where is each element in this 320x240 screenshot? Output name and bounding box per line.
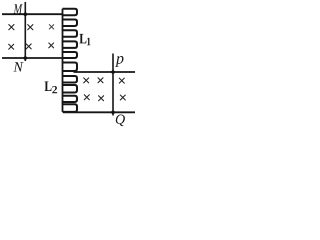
wire: bottom-left rail from N-rail to coil — [2, 57, 63, 59]
junction M (dot on top-left rail) — [24, 12, 28, 16]
field cross B2 row2 col1 — [84, 95, 89, 100]
field cross B2 row1 col3 — [119, 78, 124, 83]
rod MN (sliding conductor) — [24, 2, 26, 61]
wire: bottom-right rail from coil to edge — [63, 111, 135, 113]
label N — [13, 62, 23, 71]
junction Q (dot on bottom-right rail) — [111, 111, 115, 115]
junction P (dot on top-right rail) — [111, 70, 115, 74]
field cross B2 row2 col3 — [120, 95, 125, 100]
wire: coil common vertical conductor — [62, 9, 64, 112]
junction N (dot on bottom-left rail) — [24, 56, 28, 60]
field cross B2 row1 col2 — [98, 78, 103, 83]
field cross B1 row2 col2 — [26, 44, 31, 49]
label P — [115, 56, 123, 67]
label M — [14, 4, 23, 13]
field cross B1 row2 col3 — [49, 43, 54, 48]
field cross B1 row1 col1 — [9, 25, 14, 30]
field cross B1 row1 col2 — [28, 25, 33, 30]
field cross B1 row2 col1 — [9, 44, 14, 49]
label L2 — [45, 82, 52, 92]
label Q — [116, 115, 125, 127]
wire: top-right rail from coil to edge — [74, 71, 136, 73]
field cross B2 row2 col2 — [99, 96, 104, 101]
field cross B2 row1 col1 — [84, 78, 89, 83]
rod PQ (sliding conductor) — [112, 54, 114, 116]
field cross B1 row1 col3 — [49, 25, 53, 29]
wire: top-left rail from M-rail to coil L1 — [2, 13, 63, 15]
label L1 — [80, 34, 87, 44]
coil L2 (5 turns) — [63, 63, 78, 112]
coil L1 (5 turns) — [63, 9, 78, 58]
